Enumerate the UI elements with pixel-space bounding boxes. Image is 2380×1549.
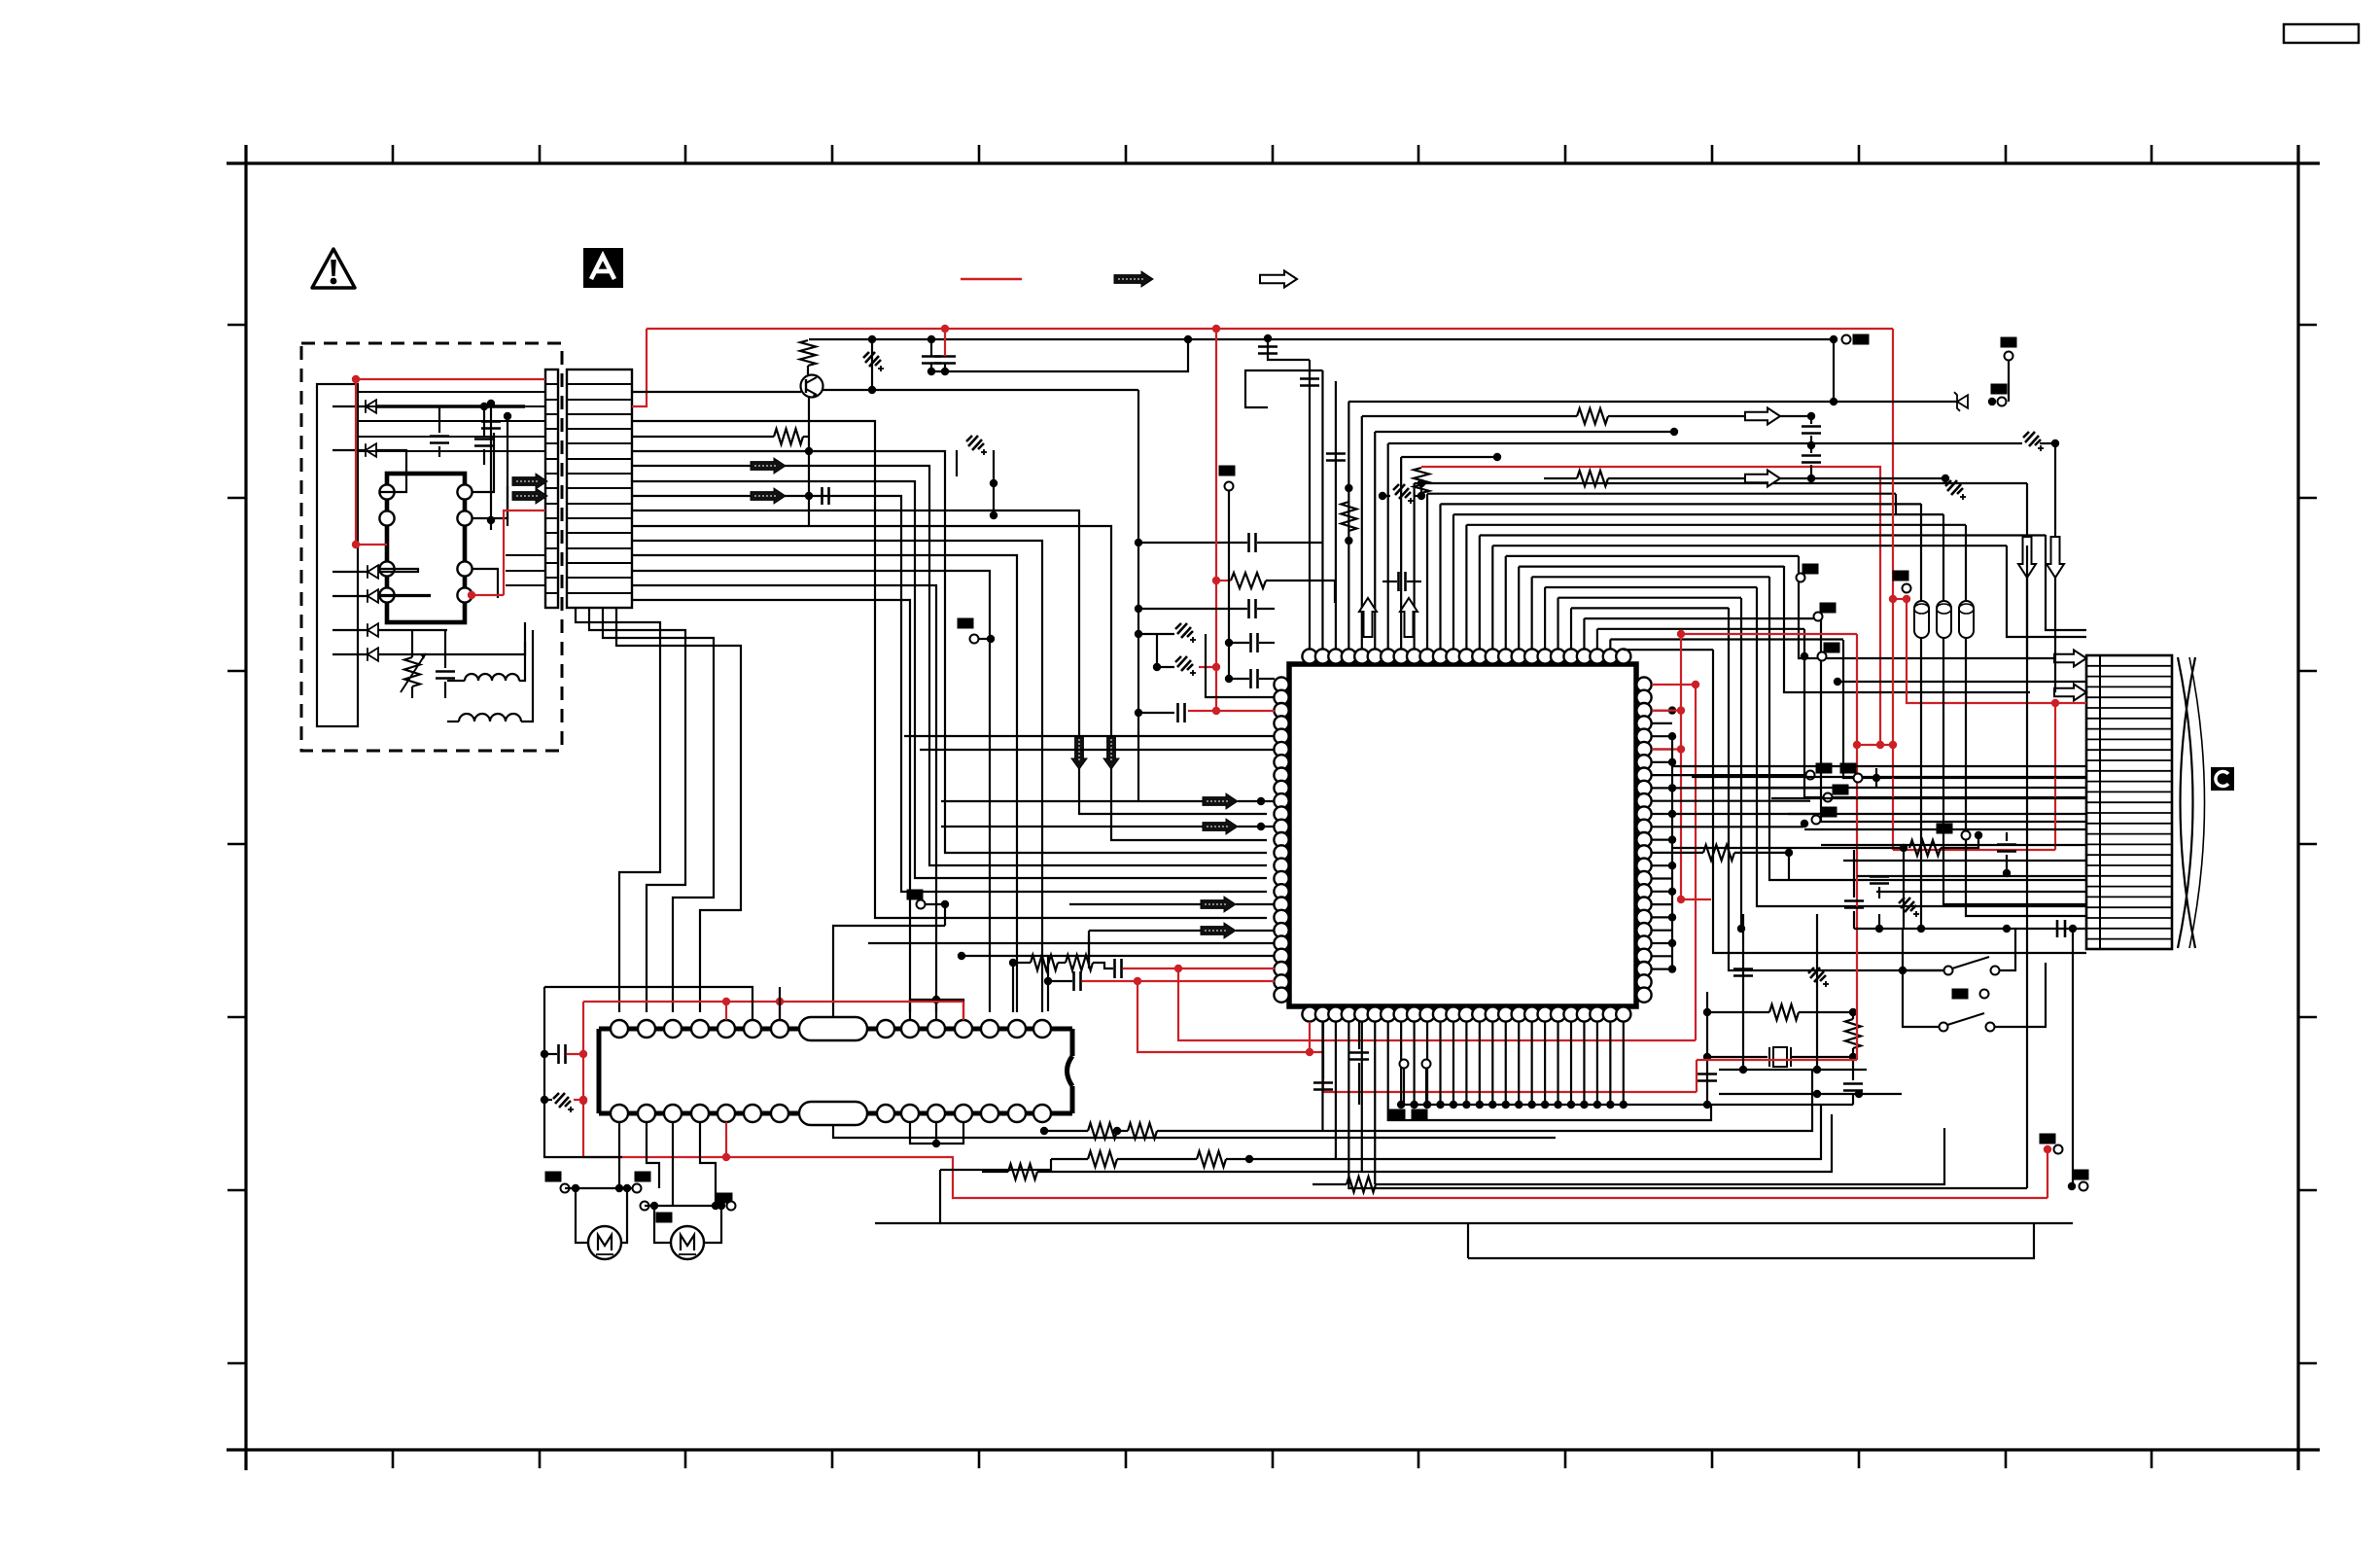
wire CN1 y510 to IC3 <box>632 496 1267 892</box>
wire long bottom return <box>1468 1224 2034 1258</box>
wire IC1 upper pins <box>472 433 494 492</box>
test point TP7 <box>1802 564 1819 575</box>
red wires IC3 right <box>1652 684 1696 686</box>
wire CN1 y587 to IC2 pin <box>632 571 990 1012</box>
red feed to IC3 left <box>1215 329 1217 711</box>
capacitor C19 <box>1843 1082 1863 1085</box>
open arrow into CN2 pin4 <box>2054 685 2086 701</box>
wire CN1 y495 to IC3 <box>632 481 1267 878</box>
wire IC2 to motor contacts <box>618 1122 620 1188</box>
red IC3 lower-left <box>1178 968 1275 969</box>
pad SW1 <box>1952 989 1969 1000</box>
resistor row y1192 <box>1051 1158 1088 1160</box>
capacitor C16 <box>557 1044 560 1064</box>
open arrow into CN2 pin1 <box>2054 651 2086 667</box>
hatched arrow A8 <box>1201 923 1236 938</box>
wire top rail black <box>809 338 1834 340</box>
wire mid rail <box>931 339 1188 371</box>
wire D4 row <box>332 595 367 597</box>
wire CN1 y571 to IC2 pin <box>632 555 1017 1012</box>
capacitor C23 <box>1844 899 1864 902</box>
wire left entries to IC3 <box>904 735 1275 737</box>
wire CN1 y479 to IC3 <box>632 466 1267 865</box>
red rail feed <box>944 329 946 356</box>
capacitor C28 <box>1138 608 1247 610</box>
wire CN1 left stubs <box>358 392 545 585</box>
wire right bottom rail <box>1854 928 2086 930</box>
test point TP4 <box>2001 337 2017 348</box>
wire Q1 collector <box>822 389 1138 391</box>
capacitor C8 <box>1397 572 1400 591</box>
resistor row y1163 <box>1044 1130 1088 1132</box>
wire CN1 y525 to IC3 upper <box>632 510 1267 814</box>
diode D6 <box>367 648 378 661</box>
wire staircase CN1 bottom to IC2 pins <box>576 608 660 1012</box>
wire CN2 mid pins <box>1672 765 2086 767</box>
wire nets top-left components <box>1268 338 1310 360</box>
wire Q1 emitter <box>808 397 810 526</box>
hatched arrow A4 <box>751 488 786 504</box>
capacitor C2 <box>474 438 494 440</box>
wire nested bus IC3 top to right side <box>1413 483 1415 649</box>
diode D5 <box>367 623 378 637</box>
resistor R9 <box>1577 471 1608 486</box>
capacitor C10 <box>1249 669 1252 688</box>
hatched arrow A3 <box>751 458 786 474</box>
wire CN1 y433 to IC3 <box>632 421 1267 918</box>
wire row 428 resistor <box>1362 415 1577 417</box>
wire capsule leads <box>1920 638 1922 929</box>
frame tick marks <box>227 145 2317 1468</box>
IC1 hybrid module <box>387 474 465 622</box>
wire stadium top <box>833 926 945 1017</box>
wire CN1 row2 long <box>632 391 801 393</box>
transistor Q1 <box>801 375 823 398</box>
cable harness brace <box>2178 657 2193 948</box>
open arrow up U2 <box>1400 598 1417 637</box>
wire IC2 bus to crystal <box>1706 992 1708 1105</box>
inductor L1 <box>465 674 519 681</box>
wire row 456 to ecap <box>1388 442 1811 444</box>
test point TP11 <box>2040 1134 2056 1144</box>
open arrow R2 <box>1745 471 1780 487</box>
open arrow R1 <box>1745 408 1780 425</box>
open arrow up U1 <box>1359 598 1377 637</box>
legend red wire sample <box>961 278 1022 281</box>
wire J1 to D2 row <box>332 449 366 451</box>
label C box <box>2211 767 2234 791</box>
capsule F1 <box>1914 601 1929 638</box>
capacitor C27 column <box>1742 914 1744 1070</box>
resistor R8 <box>1577 408 1608 424</box>
wire CN1 y617 to IC2 pin <box>632 600 910 1012</box>
test point TP1 <box>1219 466 1236 476</box>
hatched down arrow A10 <box>1103 736 1119 769</box>
capacitor C3 <box>436 670 455 673</box>
capacitor C1 <box>430 435 449 438</box>
connector CN1 <box>545 370 558 608</box>
capacitor C29 <box>1258 345 1277 348</box>
resistor R7 <box>1845 1019 1861 1048</box>
ground G6 electrolytic column <box>1816 914 1818 1070</box>
border frame <box>227 145 2320 1470</box>
wire IC2 left rail <box>544 987 622 1157</box>
wire IC1 lower right <box>472 569 498 598</box>
red wire to CN2 <box>1892 329 1894 850</box>
capacitor C26 <box>481 420 501 423</box>
hatched down arrow A9 <box>1071 736 1087 769</box>
IC2 servo driver <box>599 1029 1072 1113</box>
red rail R4 top <box>1420 467 1422 468</box>
right row pads <box>1806 771 1815 780</box>
test point TP3 <box>1400 1060 1409 1069</box>
wire IC3 left misc <box>1088 935 1090 968</box>
diode D2 <box>366 443 376 457</box>
diode D4 <box>367 589 378 603</box>
wire IC3 bottom pin6 <box>1388 1022 1711 1120</box>
IC2 right pin bridges <box>910 1000 963 1020</box>
down arrows D1 <box>2018 537 2036 578</box>
wire row 492 <box>1780 477 1945 479</box>
capsule F3 <box>1959 601 1974 638</box>
warning triangle symbol <box>312 249 355 288</box>
capacitor C17 electrolytic <box>553 1093 574 1112</box>
resistor R2 <box>774 429 803 444</box>
resistor R1 <box>800 340 816 366</box>
motor M1 <box>588 1226 621 1259</box>
capsule F2 <box>1937 601 1951 638</box>
ground G7 electrolytic <box>1139 633 1174 635</box>
legend hatched arrow <box>1114 271 1153 287</box>
legend open arrow <box>1260 271 1297 288</box>
test point TP9 <box>1824 643 1840 653</box>
capacitor C4 electrolytic <box>863 352 884 371</box>
ground G5 electrolytic <box>1899 898 1919 917</box>
motor M2 <box>671 1226 704 1259</box>
test point TP2 <box>907 890 924 900</box>
resistor R3 <box>1341 502 1356 531</box>
connector CN2 <box>2086 655 2172 949</box>
wire switch SW2 <box>1903 970 1940 1027</box>
wire D6 row <box>332 653 367 655</box>
capacitor C18 <box>1697 1073 1717 1075</box>
test point TP10 <box>1840 763 1857 774</box>
resistor R11 <box>1672 847 1904 849</box>
capacitor C14 <box>1349 1051 1369 1054</box>
test point TP13 <box>958 618 974 629</box>
capacitor C25 series <box>2056 920 2059 937</box>
ground G4 electrolytic <box>1945 480 1966 500</box>
resistor R12 <box>1672 852 1703 854</box>
hatched arrow A7 <box>1201 897 1236 912</box>
wire crystal gnd <box>1707 1104 1853 1106</box>
inductor L2 <box>459 714 521 722</box>
resistor row y1218 <box>1312 1183 1347 1185</box>
wire bus IC3 top risers <box>1309 360 1311 649</box>
ground G3 electrolytic <box>2023 432 2044 451</box>
dashed enclosure box <box>301 343 562 751</box>
red loop around IC2 <box>583 1001 963 1003</box>
red wire IC1 to CN1 <box>504 510 545 595</box>
wire rail x522 <box>507 416 508 526</box>
test point TP12 <box>2073 1170 2089 1180</box>
ground G8 electrolytic <box>1157 666 1174 668</box>
wire IC3 bottom-left resistor rows <box>1309 1022 1311 1052</box>
capacitor C9 <box>1249 633 1252 652</box>
wire CN1 y541 to IC3 upper <box>632 526 1267 840</box>
capacitor C20 <box>1802 425 1821 428</box>
hatched arrow A6 <box>1203 819 1238 834</box>
down arrows D2 <box>2047 537 2064 578</box>
capacitor C22 <box>1870 875 1889 878</box>
capacitor C30 <box>1300 377 1319 380</box>
wire bus IC3 right stubs <box>1652 709 1672 711</box>
capacitor C5 pair <box>922 355 941 358</box>
resistor R4 <box>1414 468 1429 493</box>
capacitor C12 <box>1113 959 1116 978</box>
crystal X1 <box>1707 1056 1767 1058</box>
capacitor C24 <box>1997 843 2016 846</box>
hatched arrow A1 <box>512 474 547 489</box>
wire bottom black rails <box>940 1170 2073 1223</box>
IC2 stadium pin top <box>799 1017 867 1040</box>
wire rail x505 <box>490 404 492 530</box>
wire D3 row <box>332 571 367 573</box>
diode D3 <box>367 565 378 579</box>
wire right vertical drops <box>2046 535 2086 630</box>
resistor row y1205 <box>982 1171 1008 1173</box>
pads P1 <box>1389 1109 1406 1120</box>
resistor R5 <box>1231 573 1266 588</box>
red power rail <box>647 328 1893 330</box>
wire rail end <box>1830 335 1837 343</box>
hatched arrow A2 <box>512 488 547 504</box>
IC2 stadium pin bottom <box>799 1102 867 1125</box>
wire h1125 <box>1719 1093 1902 1095</box>
wire J1 to D1 row <box>332 405 366 407</box>
wire lower-left entries to IC3 <box>868 942 1275 944</box>
capacitor C7 <box>1326 452 1346 455</box>
diode D1 <box>366 400 376 413</box>
wire right area verticals <box>1903 848 1905 929</box>
wire CN1 y556 to IC2 pin <box>632 541 1042 1012</box>
wire IC2 pin7 riser <box>779 987 781 1020</box>
label A box <box>583 248 623 288</box>
IC3 microcontroller QFP <box>1289 664 1636 1006</box>
test point TP8 <box>1820 603 1837 614</box>
wire CN2 pin2 <box>1837 681 2086 683</box>
capacitor C13 <box>1072 971 1075 991</box>
wire bus IC3 bottom to gnd bus <box>1400 1022 1402 1105</box>
capacitor C20b <box>1802 454 1821 457</box>
wire h1100 <box>1719 1069 1867 1071</box>
resistor pair R13 R14 <box>1013 962 1031 964</box>
motor M1 contacts <box>545 1172 562 1182</box>
sheet number box <box>2284 24 2359 43</box>
capacitor C15 <box>1313 1081 1333 1084</box>
resistor R6 <box>1707 1011 1769 1013</box>
wire D5 row <box>332 629 367 631</box>
variable resistor VR1 <box>404 657 420 686</box>
wire stadium bottom <box>833 1125 1556 1138</box>
wire right pin rows to pads <box>1672 774 1806 776</box>
capacitor C11 electrolytic loop <box>956 450 958 476</box>
wire CN1 y464 to IC3 <box>632 451 1267 853</box>
motor M2 contacts <box>641 1202 649 1211</box>
wire CN1 y602 to IC2 pin <box>632 585 936 1012</box>
red supply wire through CN1 <box>356 378 545 380</box>
wire row 558 with capacitor <box>1138 542 1247 544</box>
ground G2 electrolytic <box>1393 484 1414 504</box>
wire right pin bus vertical <box>1671 736 1673 968</box>
capacitor C6 <box>821 487 823 505</box>
zener diode ZD1 <box>1348 401 1957 403</box>
hatched arrow A5 <box>1203 793 1238 809</box>
wire switch SW1 <box>1903 929 1944 970</box>
connector J1 (in dashed box) <box>317 384 358 726</box>
